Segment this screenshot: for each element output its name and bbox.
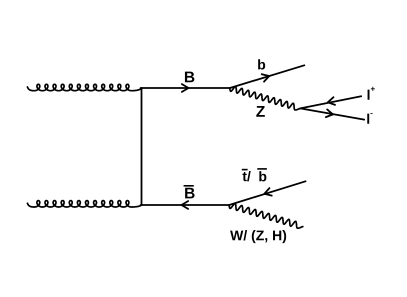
overbar of tbar label <box>242 169 248 171</box>
arrow on Bbar line (pointing left) <box>182 201 189 209</box>
label tbar/ (t with overbar and slash) <box>242 171 250 181</box>
overbar of bbar label <box>257 168 267 170</box>
boson Z wavy line <box>230 87 300 110</box>
overbar of Bbar label <box>184 185 194 187</box>
arrow on b quark line <box>262 74 269 81</box>
gluon g2 (bottom incoming gluon curly line) <box>27 201 141 207</box>
label Bbar (B with overbar) <box>185 188 194 199</box>
arrow on tbar/bbar line (pointing toward vertex) <box>264 188 271 195</box>
label W/ (Z, H) (boson label) <box>230 230 286 243</box>
boson W wavy line <box>229 204 303 229</box>
wire: vertical B propagator connecting the two gluon vertices <box>141 88 143 205</box>
wire: b quark line (upper right) <box>230 65 304 88</box>
gluon g1 (top incoming gluon curly line) <box>27 84 141 90</box>
wire: tbar/bbar quark line (lower right) <box>229 181 305 205</box>
wire: l+ lepton line <box>300 96 361 108</box>
arrow on l- line (pointing away from vertex) <box>326 109 333 117</box>
label bbar (b with overbar) <box>259 171 266 181</box>
arrow on B line (pointing right) <box>182 84 189 92</box>
label l+ (positive lepton) <box>368 87 375 100</box>
wire: B line (top horizontal fermion line) <box>141 87 230 89</box>
wire: l- lepton line <box>300 108 364 119</box>
label b (b quark) <box>258 59 265 69</box>
label Z (Z boson) <box>256 106 265 117</box>
label B (top propagator) <box>185 72 194 83</box>
wire: Bbar line (bottom horizontal fermion line) <box>141 204 230 206</box>
arrow on l+ line (pointing toward vertex) <box>328 97 335 105</box>
label l- (negative lepton) <box>367 113 372 124</box>
